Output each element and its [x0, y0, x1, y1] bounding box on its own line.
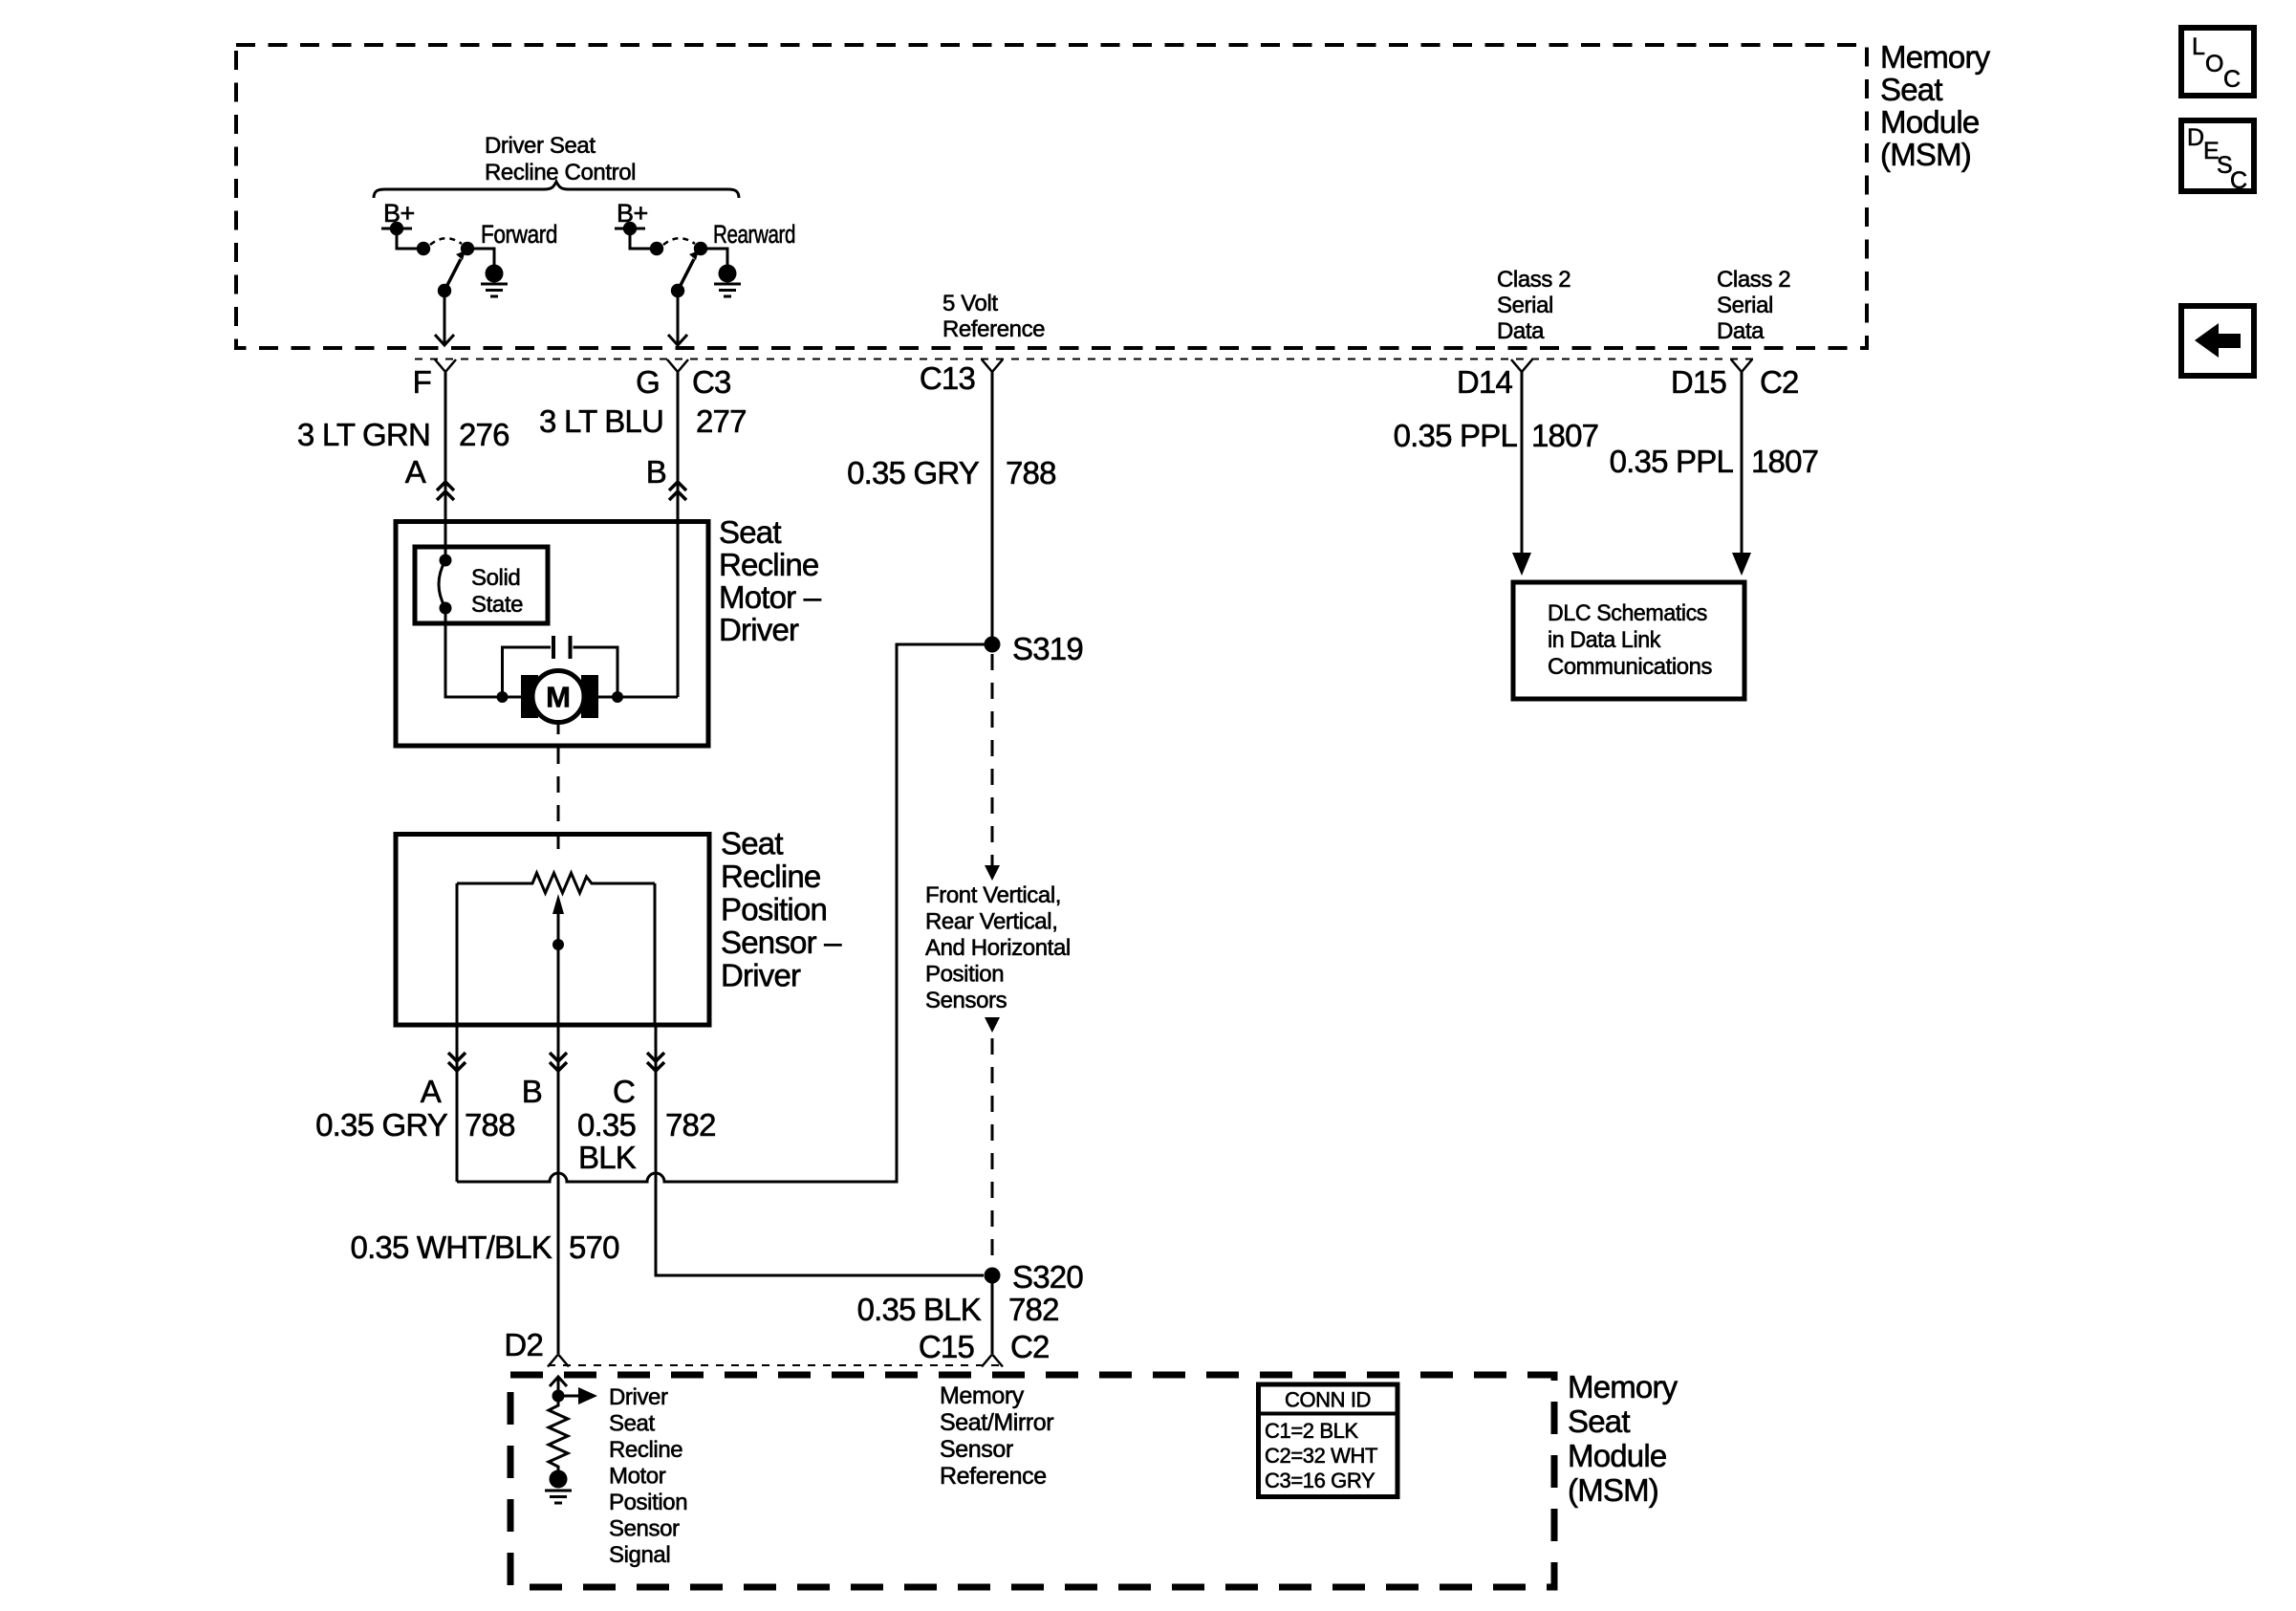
svg-text:C2: C2 [1760, 364, 1799, 400]
wire D15 [1741, 371, 1744, 555]
svg-text:Seat: Seat [721, 826, 783, 861]
arrowhead to sensors note [985, 865, 1000, 881]
svg-text:277: 277 [696, 403, 747, 439]
svg-text:Reference: Reference [940, 1463, 1047, 1490]
svg-text:1807: 1807 [1531, 418, 1598, 453]
svg-text:Recline: Recline [721, 859, 820, 894]
svg-text:Reference: Reference [942, 316, 1045, 342]
connector pin F [435, 359, 456, 372]
svg-text:Rearward: Rearward [713, 220, 795, 249]
svg-text:Data: Data [1497, 318, 1545, 344]
svg-text:Solid: Solid [471, 565, 520, 591]
svg-text:C: C [2230, 167, 2247, 194]
svg-text:788: 788 [465, 1107, 515, 1143]
forward switch: contact to ground [461, 242, 494, 265]
wire: motor right to wire B [598, 696, 678, 699]
svg-text:A: A [405, 454, 426, 490]
svg-text:Position: Position [721, 892, 827, 927]
svg-text:Motor –: Motor – [719, 579, 822, 615]
pin labels F G C3 C13 D14 D15 C2 [413, 360, 1799, 400]
label: Memory Seat/Mirror Sensor Reference [940, 1382, 1053, 1490]
svg-text:Recline: Recline [719, 547, 818, 582]
svg-text:Memory: Memory [1568, 1369, 1679, 1404]
svg-text:0.35 PPL: 0.35 PPL [1610, 444, 1734, 479]
wire: 5 volt reference C13 to S319 [991, 371, 994, 644]
connector pin D2 (bottom) [548, 1355, 569, 1367]
svg-text:F: F [413, 364, 431, 400]
splice chevrons wire A [448, 1053, 466, 1071]
wire: A to S319 with hops [457, 644, 985, 1182]
svg-text:M: M [546, 681, 571, 714]
resistor R2 (internal) [549, 1396, 568, 1470]
svg-text:And Horizontal: And Horizontal [925, 935, 1071, 961]
connector dashed line (bottom) [548, 1364, 1005, 1366]
svg-text:Seat: Seat [719, 514, 781, 550]
rearward switch: dashed arc [663, 238, 695, 245]
svg-text:570: 570 [569, 1230, 619, 1265]
svg-text:0.35 PPL: 0.35 PPL [1394, 418, 1518, 453]
svg-text:CONN ID: CONN ID [1285, 1388, 1371, 1412]
svg-text:0.35 WHT/BLK: 0.35 WHT/BLK [351, 1230, 552, 1265]
svg-text:3 LT BLU: 3 LT BLU [539, 403, 663, 439]
component box: Seat Recline Position Sensor - Driver [396, 835, 709, 1026]
svg-text:Driver: Driver [719, 612, 799, 647]
wire B(G): connector to motor box [677, 371, 680, 522]
svg-text:BLK: BLK [578, 1140, 637, 1175]
label: Front Vertical Rear Vertical And Horizontal Position Sensors [925, 882, 1071, 1013]
svg-text:D2: D2 [504, 1327, 543, 1362]
svg-text:Serial: Serial [1717, 293, 1773, 318]
pin labels A B C (sensor) [421, 1074, 635, 1109]
label: Seat Recline Motor - Driver [719, 514, 822, 647]
wire label: 0.35 PPL 1807 (right) [1610, 444, 1819, 479]
svg-text:(MSM): (MSM) [1880, 137, 1971, 172]
svg-text:0.35 GRY: 0.35 GRY [847, 455, 980, 490]
svg-text:A: A [421, 1074, 442, 1109]
svg-text:D14: D14 [1457, 364, 1513, 400]
svg-text:782: 782 [1008, 1292, 1059, 1327]
wire D14 [1521, 371, 1524, 555]
wire B below sensor [557, 1025, 560, 1354]
svg-text:C2: C2 [1010, 1329, 1050, 1364]
capacitor branch right [574, 647, 624, 703]
svg-text:Serial: Serial [1497, 293, 1553, 318]
svg-text:C3=16 GRY: C3=16 GRY [1265, 1469, 1375, 1492]
svg-text:Position: Position [609, 1490, 687, 1515]
connector pin G [667, 359, 688, 372]
svg-text:1807: 1807 [1751, 444, 1818, 479]
svg-text:C13: C13 [920, 360, 975, 396]
wire label: 3 LT GRN 276 [297, 417, 509, 452]
svg-text:Sensor: Sensor [609, 1516, 680, 1542]
back-arrow box icon [2181, 306, 2254, 376]
connector pin C13 [982, 359, 1003, 372]
svg-text:Communications: Communications [1548, 654, 1712, 680]
svg-text:5 Volt: 5 Volt [942, 291, 998, 316]
node: driver seat recline motor position sensor signal [552, 1390, 565, 1403]
svg-text:Front Vertical,: Front Vertical, [925, 882, 1061, 908]
signal entry arrow (up) [550, 1377, 567, 1396]
wire B inside motor box [677, 522, 680, 697]
forward switch: ground [481, 265, 508, 297]
svg-text:Motor: Motor [609, 1464, 666, 1490]
solid state switch contacts [439, 522, 452, 615]
DESC box icon [2181, 120, 2254, 194]
svg-text:DLC Schematics: DLC Schematics [1548, 600, 1707, 626]
svg-text:(MSM): (MSM) [1568, 1472, 1658, 1508]
svg-text:Module: Module [1568, 1438, 1666, 1473]
label: Class 2 Serial Data (left) [1497, 267, 1570, 344]
splice chevrons on wire B [669, 482, 686, 500]
svg-text:788: 788 [1006, 455, 1056, 490]
wire label: 0.35 WHT/BLK 570 [351, 1230, 620, 1265]
svg-text:Seat: Seat [609, 1411, 656, 1437]
forward switch: arm with arrow [438, 250, 466, 297]
label: Driver Seat Recline Motor Position Sensor Signal [609, 1384, 687, 1568]
svg-text:Rear Vertical,: Rear Vertical, [925, 909, 1057, 935]
component box: Seat Recline Motor - Driver [396, 522, 708, 747]
svg-text:Position: Position [925, 962, 1004, 988]
dashed wire: S319 down [991, 654, 994, 866]
forward switch: dashed arc [430, 238, 462, 245]
svg-text:O: O [2205, 51, 2223, 77]
svg-text:Sensor: Sensor [940, 1436, 1013, 1463]
svg-text:Class 2: Class 2 [1717, 267, 1790, 293]
svg-text:D: D [2187, 124, 2204, 151]
svg-text:Seat: Seat [1880, 72, 1942, 107]
svg-text:S320: S320 [1012, 1259, 1083, 1295]
node S319 [985, 637, 1001, 653]
svg-text:S319: S319 [1012, 631, 1083, 666]
svg-text:Class 2: Class 2 [1497, 267, 1570, 293]
module box MSM (top) [236, 45, 1867, 348]
svg-text:Seat/Mirror: Seat/Mirror [940, 1409, 1053, 1436]
solid state box [415, 547, 548, 623]
wire label: 0.35 BLK 782 (S320) [857, 1292, 1059, 1327]
wire: solid state to motor [445, 608, 521, 697]
capacitor branch left [497, 647, 552, 703]
annotation arrow (right) [558, 1387, 597, 1404]
connector pin D14 [1511, 359, 1532, 372]
DLC schematics box [1513, 582, 1744, 699]
rearward switch: arm with arrow [671, 250, 699, 297]
connector pin C15/C2 (bottom) [982, 1355, 1003, 1367]
splice chevrons wire C [647, 1053, 664, 1071]
arrowhead below sensors note [985, 1017, 1000, 1033]
dashed wire: to S320 [991, 1038, 994, 1269]
forward switch: B+ terminal [381, 222, 430, 255]
svg-text:Recline Control: Recline Control [485, 160, 636, 185]
motor M1 [521, 671, 598, 723]
connector dashed line (top) [415, 359, 1753, 360]
label: Seat Recline Position Sensor - Driver [721, 826, 842, 993]
svg-text:B: B [646, 454, 666, 490]
CONN ID table [1259, 1384, 1398, 1497]
potentiometer wiper arrow [552, 835, 564, 1026]
svg-text:Memory: Memory [940, 1382, 1025, 1409]
label: Memory Seat Module (MSM) bottom right [1568, 1369, 1679, 1508]
svg-text:3 LT GRN: 3 LT GRN [297, 417, 430, 452]
svg-text:G: G [636, 364, 660, 400]
svg-text:782: 782 [665, 1107, 716, 1143]
svg-text:Signal: Signal [609, 1542, 670, 1568]
capacitor C [553, 636, 571, 659]
wire label: 0.35 BLK 782 (sensor C) [577, 1107, 716, 1175]
svg-text:C15: C15 [919, 1329, 974, 1364]
arrowhead D15 [1732, 553, 1751, 576]
potentiometer R1 [457, 873, 655, 893]
module box MSM (bottom) [510, 1375, 1554, 1587]
svg-text:Driver: Driver [721, 958, 801, 993]
svg-text:L: L [2192, 33, 2205, 60]
dashed mechanical link motor-sensor [557, 748, 560, 832]
ground (bottom module) [545, 1470, 572, 1504]
wire C below sensor [656, 1025, 984, 1275]
arrowhead D14 [1512, 553, 1531, 576]
svg-text:C3: C3 [692, 364, 731, 400]
rearward switch: ground [714, 265, 741, 297]
wire label: 0.35 GRY 788 (top) [847, 455, 1056, 490]
rearward switch: contact to ground [694, 242, 727, 265]
svg-text:B: B [522, 1074, 542, 1109]
label: Memory Seat Module (MSM) top right [1880, 39, 1991, 172]
connector pin D15 [1731, 359, 1752, 372]
wire label: 3 LT BLU 277 [539, 403, 747, 439]
svg-text:0.35 GRY: 0.35 GRY [315, 1107, 448, 1143]
svg-text:0.35: 0.35 [577, 1107, 636, 1143]
svg-text:in Data Link: in Data Link [1548, 627, 1661, 653]
wire F: connector to motor box [444, 371, 447, 522]
svg-text:C: C [2223, 66, 2241, 93]
svg-text:Driver Seat: Driver Seat [485, 133, 596, 159]
wire: S320 to connector C15 [991, 1275, 994, 1354]
svg-text:Module: Module [1880, 104, 1979, 140]
wire: forward switch to connector F [435, 291, 454, 345]
svg-text:0.35 BLK: 0.35 BLK [857, 1292, 982, 1327]
wire A below sensor [456, 1025, 459, 1182]
svg-text:C2=32 WHT: C2=32 WHT [1265, 1444, 1377, 1468]
splice chevrons on wire F [437, 482, 454, 500]
wire label: 0.35 GRY 788 (bottom) [315, 1107, 515, 1143]
brace: Driver Seat Recline Control [374, 182, 739, 198]
motor bottom stub [557, 723, 560, 735]
wire label: 0.35 PPL 1807 (left) [1394, 418, 1599, 453]
label: Solid State [471, 565, 523, 618]
rearward switch: B+ terminal [615, 222, 663, 255]
label: Class 2 Serial Data (right) [1717, 267, 1790, 344]
svg-text:C: C [613, 1074, 635, 1109]
splice chevrons wire B [550, 1053, 567, 1071]
label: Driver Seat Recline Control [485, 133, 636, 185]
LOC box icon [2181, 28, 2254, 96]
svg-text:Memory: Memory [1880, 39, 1991, 75]
svg-text:C1=2 BLK: C1=2 BLK [1265, 1419, 1358, 1443]
CONN ID table text [1265, 1388, 1377, 1493]
svg-text:Driver: Driver [609, 1384, 668, 1410]
svg-text:Seat: Seat [1568, 1404, 1630, 1439]
pin labels C15 C2 (bottom) [919, 1329, 1050, 1364]
svg-text:State: State [471, 592, 523, 618]
svg-text:Sensor –: Sensor – [721, 925, 842, 960]
node S320 [985, 1268, 1001, 1284]
label: 5 Volt Reference [942, 291, 1045, 342]
wire: rearward switch to connector G [668, 291, 687, 345]
svg-text:Sensors: Sensors [925, 988, 1007, 1013]
label: DLC Schematics in Data Link Communications [1548, 600, 1712, 680]
svg-text:Forward: Forward [481, 220, 557, 249]
svg-text:Recline: Recline [609, 1437, 682, 1463]
sensor wires to box bottom [457, 883, 655, 1025]
svg-text:276: 276 [459, 417, 509, 452]
svg-text:D15: D15 [1671, 364, 1726, 400]
svg-text:Data: Data [1717, 318, 1765, 344]
